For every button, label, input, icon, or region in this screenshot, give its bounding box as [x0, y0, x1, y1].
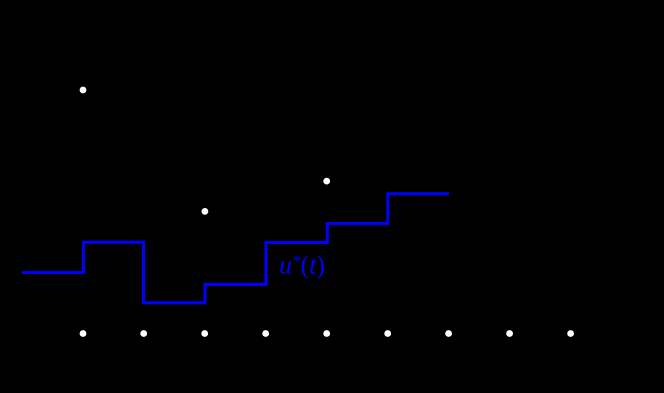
svg-text:u*(t): u*(t)	[279, 251, 325, 280]
